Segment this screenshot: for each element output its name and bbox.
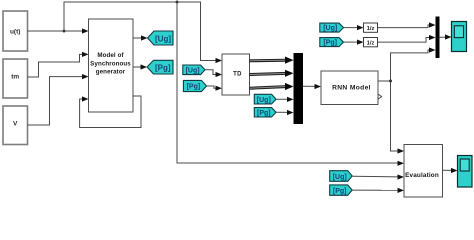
wire u(t) branch over the top to TD in1 (64, 2, 217, 61)
wire generator out2 to goto Pg (133, 64, 147, 69)
from tag [Pg] (below TD) (254, 108, 276, 117)
wire from tag Ug to mux1 in4 (276, 97, 294, 102)
node junction RNN out (389, 80, 392, 83)
goto tag [Ug] (148, 31, 174, 45)
svg-text:1/z: 1/z (367, 40, 375, 46)
from tag [Pg] (bottom) (330, 185, 353, 195)
goto tag [Pg] (147, 60, 173, 74)
wire tm to generator in2 (28, 52, 89, 77)
wire unit delay 2 to mux2 in2 (378, 35, 436, 42)
source block tm (3, 59, 28, 98)
wire mux2 to scope1 (440, 34, 452, 39)
svg-text:1/z: 1/z (367, 26, 375, 32)
svg-text:[Pg]: [Pg] (323, 40, 337, 47)
wire tag to unit delay 2 (344, 40, 364, 45)
mux1 bar (294, 53, 304, 124)
scope1 (top right) (452, 22, 467, 52)
scope2 (bottom right) (458, 156, 473, 188)
from tag [Ug] (left of TD) (183, 65, 205, 75)
svg-text:V: V (13, 120, 18, 127)
svg-text:u(t): u(t) (10, 28, 20, 35)
RNN Model unconnected out2 port (378, 94, 382, 99)
wire from tag Pg to TD in3 (207, 86, 222, 91)
unit delay block 1/z (2) (364, 38, 378, 47)
svg-text:TD: TD (233, 72, 242, 78)
svg-text:tm: tm (11, 73, 19, 80)
wire V to generator in3 (28, 74, 89, 125)
unit delay block 1/z (1) (364, 23, 378, 32)
svg-text:[Pg]: [Pg] (333, 188, 347, 195)
node junction on u(t) wire (63, 30, 66, 33)
arrowhead into TD in1 (216, 58, 223, 63)
svg-text:[Ug]: [Ug] (155, 34, 171, 43)
wire generator feedback loop (80, 96, 141, 128)
node junction top branch (176, 1, 179, 4)
svg-text:RNN Model: RNN Model (332, 84, 371, 91)
source block V (3, 106, 28, 145)
wire mux1 to RNN Model (303, 84, 321, 89)
svg-text:[Ug]: [Ug] (186, 67, 200, 74)
svg-text:Model of: Model of (97, 52, 124, 59)
source block u(t) (3, 11, 28, 51)
wire TD out2 to mux1 (wide) (250, 70, 294, 77)
svg-text:Synchronous: Synchronous (90, 60, 131, 67)
block Model of Synchronous generator (89, 19, 134, 112)
svg-text:[Pg]: [Pg] (257, 110, 271, 117)
mux2 bar (436, 17, 440, 59)
wire tag to unit delay 1 (344, 25, 364, 30)
svg-text:[Ug]: [Ug] (257, 97, 271, 104)
wire generator out1 to goto Ug (133, 35, 148, 40)
wire from tag Pg to mux1 in5 (276, 110, 294, 115)
from tag [Ug] (bottom) (330, 171, 353, 182)
svg-text:generator: generator (96, 68, 126, 75)
wire bottom tag Pg to Evaluation in4 (352, 188, 404, 193)
wire unit delay 1 to mux2 in1 (378, 22, 436, 27)
from tag [Ug] (top right) (320, 23, 344, 32)
wire RNN out1 with branches to mux2 and Evaluation (378, 47, 436, 153)
svg-text:Evaulation: Evaulation (405, 172, 439, 179)
wire Evaluation to scope2 (443, 168, 458, 173)
svg-text:[Ug]: [Ug] (323, 25, 337, 32)
svg-text:[Pg]: [Pg] (187, 84, 201, 91)
svg-text:[Ug]: [Ug] (333, 174, 347, 181)
wire from tag Ug to TD in2 (205, 70, 222, 77)
wire u(t) long branch down to Evaluation in2 (177, 2, 404, 166)
wire bottom tag Ug to Evaluation in3 (352, 174, 404, 179)
from tag [Pg] (left of TD) (183, 80, 206, 91)
from tag [Ug] (below TD) (254, 94, 276, 104)
svg-text:[Pg]: [Pg] (155, 63, 171, 72)
from tag [Pg] (top right) (320, 38, 344, 47)
wire u(t) to generator in1 (28, 28, 89, 33)
block RNN Model (321, 71, 378, 105)
block Evaluation (404, 145, 443, 198)
block TD (222, 54, 250, 95)
wire TD out1 to mux1 (wide) (250, 57, 294, 64)
wire TD out3 to mux1 (wide) (250, 83, 294, 90)
